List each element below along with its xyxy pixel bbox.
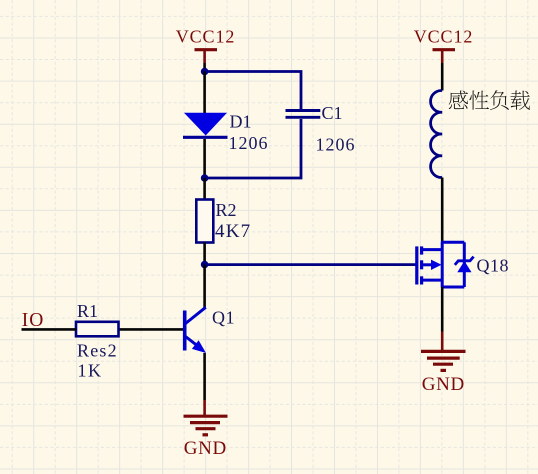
pin: D1 anode from node A xyxy=(203,72,206,114)
resistor R2 xyxy=(196,200,213,243)
svg-text:IO: IO xyxy=(22,310,45,331)
svg-text:C1: C1 xyxy=(322,103,343,123)
node B junction (D1/C1/R2) xyxy=(201,174,209,182)
wire node A to C1 top xyxy=(205,72,301,110)
pin: R2 top xyxy=(203,178,206,200)
ground GND (right) xyxy=(421,351,466,370)
pin: D1 cathode to node B xyxy=(203,139,206,178)
power port VCC12 (right) xyxy=(414,27,474,64)
capacitor C1 xyxy=(286,111,321,118)
svg-text:Q18: Q18 xyxy=(477,256,510,276)
svg-text:D1: D1 xyxy=(230,112,252,132)
svg-text:GND: GND xyxy=(422,374,465,395)
pin: R2 bottom to node C xyxy=(203,243,206,265)
wire node C to Q1 collector xyxy=(203,265,206,308)
diode D1 xyxy=(183,113,228,138)
wire Q1 emitter to GND xyxy=(203,353,206,400)
wire R1 to Q1 base xyxy=(120,328,184,331)
node A junction (top rail / C1 branch) xyxy=(201,68,209,76)
inductor L (inductive load) xyxy=(431,90,443,177)
svg-text:1K: 1K xyxy=(78,361,103,381)
svg-text:VCC12: VCC12 xyxy=(414,27,474,47)
resistor R1 xyxy=(76,322,119,337)
svg-text:R2: R2 xyxy=(216,200,237,220)
ground GND (left) xyxy=(184,416,228,435)
svg-text:GND: GND xyxy=(184,438,227,459)
svg-text:Res2: Res2 xyxy=(77,341,118,361)
svg-text:4K7: 4K7 xyxy=(215,221,251,242)
wire VCC12 stub to node A xyxy=(203,63,206,72)
svg-text:R1: R1 xyxy=(77,301,98,321)
svg-text:1206: 1206 xyxy=(316,135,356,155)
wire inductor to Q18 drain xyxy=(441,178,444,243)
svg-text:Q1: Q1 xyxy=(212,308,235,328)
transistor Q1 (NPN) xyxy=(183,307,206,353)
wire VCC12 to inductor xyxy=(441,63,444,91)
power port VCC12 (left) xyxy=(176,27,236,64)
wire IO to R1 xyxy=(22,328,77,331)
wire C1 bottom to node B xyxy=(205,119,301,178)
node C junction (R2/Q1 collector/Q18 gate) xyxy=(201,261,209,269)
label 感性负载 (inductive load) xyxy=(449,90,530,110)
wire Q18 source to GND xyxy=(441,287,444,332)
transistor Q18 (NMOS with body diode) xyxy=(415,242,473,288)
wire node C to Q18 gate xyxy=(205,263,416,266)
svg-text:VCC12: VCC12 xyxy=(176,27,236,47)
svg-text:1206: 1206 xyxy=(229,133,269,153)
